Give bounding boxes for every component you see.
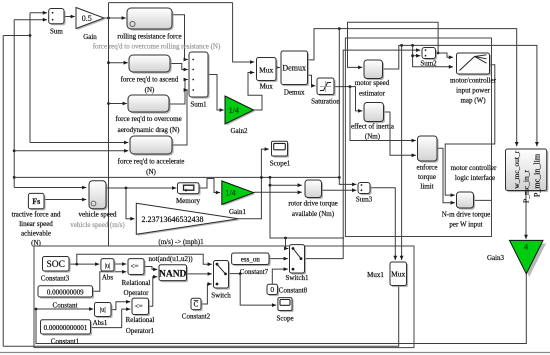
- wire Gain output to rolling resistance force with trunk branches at x=108.5: [104, 3, 254, 246]
- logic block NAND: [149, 255, 194, 282]
- subsystem block force req'd to ascend: [121, 55, 179, 94]
- svg-text:C: C: [194, 301, 199, 309]
- subsystem block vehicle speed: [70, 181, 125, 229]
- svg-text:Sum3: Sum3: [356, 196, 373, 204]
- wire ess_on to Switch1 input 2: [269, 257, 288, 261]
- wire feedback net into Sum input 1 (vertical x=30 with branch to accelerate): [3, 11, 128, 145]
- saturation block Saturation: [311, 78, 340, 106]
- sum block Sum: [49, 9, 66, 36]
- svg-text:Sum1: Sum1: [190, 101, 207, 109]
- svg-text:force req'd to ascend: force req'd to ascend: [121, 76, 179, 84]
- svg-text:Constant2: Constant2: [182, 313, 211, 321]
- abs block Abs: [101, 259, 116, 282]
- wire SOC output to Abs: [69, 262, 99, 266]
- svg-text:Gain1: Gain1: [229, 208, 247, 216]
- wire branch x=14.2 to accelerate input 2: [13, 149, 129, 153]
- svg-text:torque: torque: [418, 173, 436, 181]
- wire Relational Operator output to NAND input 1: [144, 267, 157, 272]
- mux block Mux: [257, 58, 278, 91]
- constant block 0.00000000001: [41, 320, 93, 346]
- constant block Constant2: [182, 298, 211, 320]
- svg-text:Fs: Fs: [32, 197, 40, 206]
- svg-text:Constant8: Constant8: [279, 287, 308, 295]
- svg-text:per W input: per W input: [449, 221, 482, 229]
- constant block ess_on: [232, 253, 271, 276]
- wire effect of inertia output to enforce torque limit input 2: [384, 112, 416, 157]
- wire controller block output down to Gain3: [524, 191, 528, 240]
- svg-text:enforce: enforce: [417, 164, 438, 172]
- wire Fs output to vehicle speed input 2: [44, 198, 86, 202]
- svg-text:Mux: Mux: [259, 66, 273, 75]
- svg-text:(Nm): (Nm): [365, 133, 381, 141]
- svg-text:Gain2: Gain2: [230, 127, 248, 135]
- subsystem block rotor drive torque available: [288, 180, 337, 218]
- wire branch x=108.5 to ascend input: [107, 61, 128, 65]
- svg-text:Abs1: Abs1: [93, 319, 108, 327]
- svg-text:(N): (N): [145, 86, 155, 94]
- wire power map output down to N-m drive torque input 1: [445, 65, 495, 197]
- gain block Gain1: [222, 181, 255, 216]
- svg-text:vehicle speed (m/s): vehicle speed (m/s): [70, 221, 125, 229]
- scope block Scope1: [270, 141, 291, 167]
- wire mph triangle output up to long line and Scope1: [238, 147, 268, 219]
- wire Gain3 output down and left to Abs1 feed: [35, 274, 527, 344]
- wire Memory output jog to Gain1: [199, 179, 220, 195]
- wire Sum output to Gain: [64, 15, 75, 19]
- sum block Sum1: [189, 52, 210, 109]
- svg-text:force req'd to overcome: force req'd to overcome: [115, 115, 181, 123]
- svg-text:Scope1: Scope1: [270, 160, 291, 168]
- wire Abs output to Relational Operator input 1: [114, 262, 126, 266]
- svg-text:1/4: 1/4: [229, 106, 239, 115]
- subsystem block rolling resistance force: [117, 8, 181, 41]
- svg-text:Switch1: Switch1: [286, 274, 309, 282]
- svg-text:P_mc_in_lim: P_mc_in_lim: [532, 153, 541, 197]
- svg-text:w_mc_out_r: w_mc_out_r: [512, 150, 521, 188]
- svg-text:|u|: |u|: [100, 307, 106, 314]
- wire motor speed estimator output up across to controller block input 2: [383, 45, 539, 146]
- wire accelerate output to Sum1 input 4: [172, 88, 188, 145]
- subsystem box around motor controller blocks: [345, 38, 491, 237]
- svg-text:Mux: Mux: [260, 83, 274, 91]
- wire NAND output to Switch input 2: [187, 272, 212, 276]
- wire Constant1 to Relational Operator1 input 2: [91, 307, 131, 327]
- svg-text:Mux1: Mux1: [367, 271, 384, 279]
- sum block Sum2: [420, 48, 437, 68]
- svg-text:Saturation: Saturation: [311, 98, 340, 106]
- svg-text:linear speed: linear speed: [19, 220, 53, 228]
- svg-text:Constant3: Constant3: [41, 275, 70, 283]
- svg-text:SOC: SOC: [46, 260, 64, 270]
- wire Switch1 output up to Sum2 input 1: [305, 48, 421, 258]
- svg-text:0.00000000001: 0.00000000001: [44, 324, 88, 332]
- wire Mux1 output down and left to x=3.2: [3, 286, 399, 347]
- wire branch at x=339.3 down to Sum3 input 1: [338, 27, 356, 186]
- subsystem block N-m drive torque per W input: [442, 192, 491, 229]
- wire Switch output branch down to Scope: [229, 272, 277, 307]
- svg-text:motor/controller: motor/controller: [450, 77, 497, 85]
- wire into Sum input 2 (vertical x=14.2): [14, 18, 47, 178]
- svg-text:0.5: 0.5: [82, 14, 92, 23]
- svg-text:force req'd to accelerate: force req'd to accelerate: [118, 158, 185, 166]
- svg-text:motor controller: motor controller: [451, 164, 497, 172]
- subsystem box around battery logic blocks: [34, 246, 414, 348]
- svg-text:0: 0: [270, 285, 274, 294]
- annotation motor controller logic interface: [451, 164, 497, 182]
- wire branch down to enforce torque limit input 1: [349, 85, 416, 142]
- wire branch to Sum2 input 2 and power map input 2: [411, 44, 453, 69]
- constant block zero display: [267, 284, 308, 296]
- svg-text:Constant1: Constant1: [51, 338, 80, 346]
- demux block Demux: [281, 51, 309, 97]
- wire rotor output to Sum3 input 2: [322, 188, 357, 192]
- svg-text:motor speed: motor speed: [355, 79, 390, 87]
- wire Sum2 output loop to motor speed estimator input: [348, 22, 440, 69]
- svg-text:effect of inertia: effect of inertia: [351, 123, 395, 131]
- svg-text:<=: <=: [131, 263, 139, 271]
- svg-text:ess_on: ess_on: [241, 256, 261, 264]
- svg-text:(m/s) -> (mph)1: (m/s) -> (mph)1: [158, 238, 204, 246]
- wire Constant8 zero block up to Switch1 input 3: [272, 267, 288, 284]
- wire Demux output 2 to Saturation: [308, 75, 316, 87]
- gain block Gain3: [487, 240, 546, 276]
- gain block (m/s)->(mph)1 conversion triangle: [136, 203, 240, 246]
- svg-text:Switch: Switch: [211, 292, 231, 300]
- wire ascend output to Sum1 input 2: [170, 64, 188, 72]
- subsystem block force req'd to accelerate: [118, 136, 185, 176]
- wire Gain2 output looping up to Mux input 2: [248, 71, 262, 110]
- svg-text:available (Nm): available (Nm): [292, 210, 335, 218]
- constant block Fs: [12, 193, 61, 246]
- svg-text:limit: limit: [420, 183, 433, 191]
- memory block Memory: [176, 183, 201, 205]
- wire vehicle speed output to Memory: [106, 186, 176, 190]
- svg-text:Demux: Demux: [282, 64, 306, 73]
- wire rolling resistance output to Sum1 input 1: [172, 15, 188, 62]
- gain block Gain 0.5: [76, 8, 106, 42]
- relational operator1 block: [126, 298, 155, 335]
- wire aero drag output to Sum1 input 3: [169, 78, 188, 104]
- wire Relational Operator1 output up to NAND input 2: [149, 275, 158, 306]
- svg-text:Gain: Gain: [83, 33, 97, 41]
- svg-text:(N): (N): [146, 168, 156, 176]
- svg-text:Sum: Sum: [50, 28, 63, 36]
- wire N-m drive torque output: [474, 199, 492, 201]
- wire Abs1 output to Relational Operator1 input 1: [111, 300, 130, 310]
- svg-text:Constant: Constant: [53, 302, 78, 310]
- svg-text:input power: input power: [456, 87, 490, 95]
- svg-text:rotor drive torque: rotor drive torque: [288, 200, 337, 208]
- wire Sum2 output to power map input 1: [436, 53, 454, 59]
- svg-text:Sum2: Sum2: [420, 60, 437, 68]
- svg-text:force req'd to overcome rollin: force req'd to overcome rolling resistan…: [93, 43, 221, 51]
- svg-text:Mux: Mux: [391, 270, 405, 279]
- outer border bottom: [0, 352, 550, 354]
- svg-text:Operator: Operator: [124, 289, 150, 297]
- svg-text:Abs: Abs: [102, 274, 114, 282]
- wire mph line branch down: rotor input 1 and Switch1 input 1: [269, 176, 344, 250]
- svg-text:(N): (N): [31, 239, 41, 247]
- wire branch down to Mux1 input 2: [400, 44, 404, 260]
- svg-text:Scope: Scope: [276, 315, 293, 323]
- annotation force req'd to overcome rolling resistance (N): [93, 43, 221, 51]
- bus block w_mc_out_r P_mc_in_r P_mc_in_lim: [506, 149, 549, 203]
- wire Constant 0.000000009 to Relational Operator input 2: [93, 270, 127, 291]
- svg-text:not(and(u1,u2)): not(and(u1,u2)): [149, 255, 194, 263]
- wire Mux output to Demux: [276, 66, 280, 70]
- svg-text:Gain3: Gain3: [487, 254, 505, 262]
- svg-text:Constant7: Constant7: [240, 268, 269, 276]
- wire branch x=14.2 down to vehicle speed input 1: [13, 176, 87, 189]
- svg-text:Memory: Memory: [176, 197, 201, 205]
- wire Sum1 output to Gain2: [208, 75, 224, 112]
- svg-text:NAND: NAND: [159, 269, 187, 279]
- svg-text:map (W): map (W): [460, 97, 486, 105]
- svg-text:vehicle speed: vehicle speed: [79, 211, 117, 219]
- mux block Mux1: [367, 262, 408, 287]
- switch block Switch: [211, 261, 231, 300]
- lookup block motor/controller input power map: [450, 53, 497, 105]
- svg-text:P_mc_in_r: P_mc_in_r: [522, 170, 531, 203]
- wire Sum3 output down to Mux1 input 1: [370, 188, 397, 260]
- wire long horizontal y=177.4 (mph feedback) from x=14.2 joining trunk at x=339.3: [14, 176, 340, 179]
- svg-text:2.23713646532438: 2.23713646532438: [142, 215, 204, 224]
- svg-text:|u|: |u|: [105, 262, 111, 269]
- switch block Switch1: [286, 245, 309, 282]
- svg-text:N-m drive torque: N-m drive torque: [442, 211, 491, 219]
- wire Gain1 output to rotor input 2: [254, 190, 302, 194]
- svg-text:achievable: achievable: [21, 230, 51, 238]
- wire branch down into mph gain triangle: [126, 188, 135, 221]
- wire SOC branch up across to Switch input 1: [77, 254, 212, 266]
- scope block Scope: [276, 298, 293, 323]
- wire branch x=108.5 to aero drag input: [107, 102, 127, 106]
- gain block Gain2: [225, 96, 255, 135]
- abs block Abs1: [93, 303, 113, 328]
- subsystem block force req'd to overcome aerodynamic drag: [115, 95, 181, 134]
- svg-text:Relational: Relational: [126, 316, 155, 324]
- svg-text:<=: <=: [135, 302, 143, 310]
- subsystem block enforce torque limit: [417, 136, 439, 191]
- svg-text:1/4: 1/4: [225, 189, 235, 198]
- constant block 0.000000009: [38, 286, 94, 310]
- svg-text:estimator: estimator: [359, 89, 386, 97]
- sum block Sum3: [356, 183, 373, 204]
- subsystem block motor speed estimator: [355, 60, 390, 97]
- relational operator block: [122, 259, 151, 297]
- svg-text:Operator1: Operator1: [126, 327, 155, 335]
- svg-text:0.000000009: 0.000000009: [47, 288, 84, 296]
- wire Saturation output to effect of inertia: [334, 87, 362, 113]
- wire Constant2 up to Switch input 3: [201, 282, 212, 304]
- svg-text:tractive force and: tractive force and: [12, 211, 61, 219]
- svg-text:Relational: Relational: [122, 279, 151, 287]
- svg-text:logic interface: logic interface: [455, 174, 495, 182]
- svg-text:Demux: Demux: [284, 89, 305, 97]
- svg-text:rolling resistance force: rolling resistance force: [117, 33, 181, 41]
- svg-text:aerodynamic drag (N): aerodynamic drag (N): [118, 126, 180, 134]
- wire Demux output 1 up and across to controller block input 1: [308, 29, 519, 147]
- wire left feedback vertical x=3.2 from Mux1 bottom line up to y=35.5: [2, 36, 4, 347]
- constant block SOC: [41, 257, 71, 283]
- wire enforce torque limit output to N-m drive torque input 2: [437, 148, 455, 204]
- subsystem block effect of inertia: [351, 103, 395, 141]
